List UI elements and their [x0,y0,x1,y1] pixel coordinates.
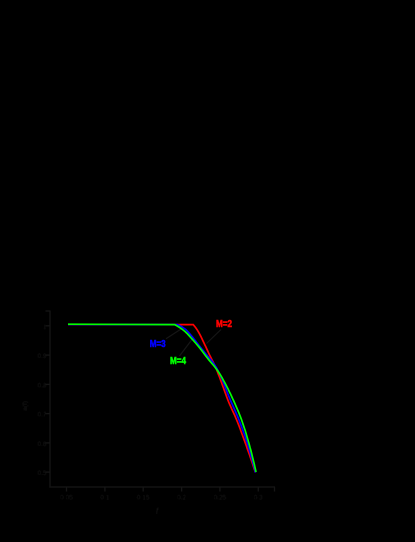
svg-text:0.3: 0.3 [254,495,263,502]
connector M=3 [166,328,183,339]
x ticks [66,487,68,492]
svg-text:0.6: 0.6 [37,441,46,448]
svg-text:0.5: 0.5 [37,470,46,477]
y-axis [49,311,51,488]
y-axis top end tick [46,310,51,312]
svg-text:M=4: M=4 [170,356,186,367]
connector M=4 [180,338,194,357]
svg-text:0.15: 0.15 [137,495,150,502]
svg-text:0.1: 0.1 [100,495,109,502]
x-axis [49,486,275,488]
svg-text:M=3: M=3 [150,339,166,350]
svg-text:a(f): a(f) [22,401,29,411]
svg-text:0.8: 0.8 [37,382,46,389]
connector M=2 [207,330,222,344]
curve M=4 green [68,324,256,472]
svg-text:0.9: 0.9 [37,353,46,360]
svg-text:0.05: 0.05 [60,495,73,502]
x-axis right end tick [274,487,276,492]
curve M=3 blue [68,324,256,472]
svg-text:1: 1 [43,324,47,331]
svg-text:0.7: 0.7 [37,412,46,419]
y ticks [46,325,51,327]
svg-text:0.25: 0.25 [214,495,227,502]
svg-text:0.2: 0.2 [177,495,186,502]
curve M=2 red [68,324,255,472]
svg-text:M=2: M=2 [216,319,232,330]
